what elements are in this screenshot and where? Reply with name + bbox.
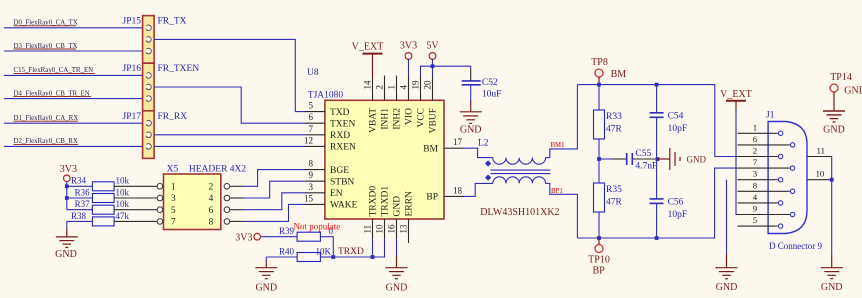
J1 pin 1 [738, 122, 783, 135]
svg-text:1: 1 [171, 183, 176, 193]
connector J1 D Connector 9 body [766, 111, 822, 252]
svg-text:BM: BM [423, 144, 438, 154]
svg-text:3V3: 3V3 [400, 41, 417, 52]
svg-text:5V: 5V [426, 41, 439, 52]
pin 9 STBN [305, 170, 354, 187]
svg-text:C55: C55 [635, 149, 651, 159]
J1 pin 5 [738, 215, 783, 228]
power 3V3 (left) [60, 164, 77, 182]
ground GND (U8 pin16) [386, 256, 408, 294]
svg-text:C54: C54 [668, 112, 684, 122]
svg-text:GND: GND [55, 249, 77, 260]
svg-text:4: 4 [399, 85, 409, 90]
junction [371, 255, 375, 259]
junction [597, 157, 601, 161]
pin 11 TRXD0 [363, 186, 379, 239]
svg-text:15: 15 [304, 193, 314, 203]
pin 20 VBUF [423, 76, 439, 134]
svg-text:INH2: INH2 [393, 108, 403, 130]
wire D2 to JP17.3 [4, 145, 143, 147]
svg-text:1: 1 [387, 85, 397, 90]
wire FR_RX JP17.2 to U8.RXD [154, 134, 305, 136]
resistor R38 [67, 211, 130, 226]
svg-text:10k: 10k [116, 187, 130, 197]
svg-text:GND: GND [823, 125, 845, 136]
header X5 [114, 165, 246, 230]
svg-text:8: 8 [309, 159, 314, 169]
svg-text:5: 5 [753, 215, 758, 225]
svg-text:R37: R37 [75, 199, 91, 209]
junction [597, 83, 601, 87]
svg-text:10k: 10k [116, 176, 130, 186]
wire FR_TXEN JP16.2 to U8.TXEN [154, 87, 305, 123]
resistor R36 [67, 187, 130, 202]
wire shield to ground [831, 180, 833, 256]
pin 16 GND [387, 196, 403, 239]
ground GND (R40) [255, 260, 277, 294]
wire BP pin18 to choke [464, 183, 493, 196]
svg-text:20: 20 [423, 80, 433, 90]
wire R38 to ground [66, 221, 68, 230]
net D0_FlexRay0_CA_TX [14, 20, 78, 27]
testpoint TP8 [591, 57, 608, 85]
svg-text:JP17: JP17 [123, 112, 142, 122]
wire 3V3 vertical [66, 182, 68, 210]
pin 12 RXEN [304, 135, 356, 152]
power 5V [426, 41, 439, 60]
svg-text:14: 14 [363, 80, 373, 90]
svg-text:JP15: JP15 [123, 17, 142, 27]
wire V_EXT to J1 pin9 [736, 110, 738, 215]
ground GND (rotated, C55) [658, 148, 707, 170]
svg-text:V_EXT: V_EXT [720, 89, 752, 100]
svg-text:6: 6 [209, 206, 214, 216]
svg-text:BM: BM [611, 69, 627, 80]
J1 pin 9 [738, 204, 795, 217]
svg-text:11: 11 [817, 146, 825, 156]
J1 pin 6 [738, 134, 795, 147]
svg-text:5: 5 [171, 206, 176, 216]
svg-text:RXD: RXD [330, 131, 350, 141]
svg-text:10: 10 [816, 169, 825, 179]
wire TRXD0 drop [372, 239, 374, 257]
svg-text:10k: 10k [116, 199, 130, 209]
J1 pin 10 [807, 169, 832, 180]
capacitor C55 [599, 149, 658, 171]
capacitor C52 [462, 78, 502, 100]
testpoint TP10 [588, 238, 610, 266]
power 3V3 (R39) [235, 233, 260, 244]
svg-text:TP8: TP8 [591, 57, 608, 68]
wire J1 pin3 to ground [726, 180, 728, 256]
svg-text:19: 19 [411, 80, 421, 90]
junction [431, 64, 435, 68]
svg-text:7: 7 [309, 124, 314, 134]
svg-text:3V3: 3V3 [60, 164, 77, 175]
svg-text:BP: BP [593, 266, 606, 277]
op-amp U8 TJA1080 body [307, 68, 444, 219]
jumper JP15 [123, 16, 155, 64]
svg-text:R39: R39 [279, 226, 295, 236]
svg-text:TJA1080: TJA1080 [308, 91, 344, 101]
svg-text:BM1: BM1 [551, 142, 565, 149]
svg-text:6: 6 [309, 112, 314, 122]
svg-text:VIO: VIO [405, 108, 415, 125]
wire JP17.3 to U8.RXEN [154, 145, 305, 147]
wire D3 to JP15.3 [4, 50, 143, 52]
svg-text:R38: R38 [71, 211, 87, 221]
svg-text:3: 3 [309, 182, 314, 192]
J1 pin 8 [738, 180, 795, 193]
junction [656, 157, 660, 161]
resistor R35 [594, 183, 623, 212]
jumper JP17 [123, 111, 155, 159]
svg-text:3V3: 3V3 [235, 233, 252, 244]
svg-text:3: 3 [171, 194, 176, 204]
svg-text:11: 11 [363, 225, 373, 234]
svg-text:10pF: 10pF [668, 124, 688, 134]
wire BM pin17 to choke [464, 148, 493, 157]
J1 pin 7 [738, 157, 795, 170]
svg-text:GND: GND [393, 196, 403, 217]
pin 13 ERRN [399, 191, 415, 243]
svg-text:4.7nF: 4.7nF [635, 162, 657, 172]
ground GND (J1 shield) [821, 255, 843, 293]
wire X5.8 to U8.WAKE [244, 204, 306, 221]
pin 19 VCC [411, 76, 427, 128]
svg-text:10: 10 [375, 224, 385, 234]
junction [830, 178, 834, 182]
J1 pin 11 [807, 146, 832, 157]
svg-text:JP16: JP16 [123, 64, 142, 74]
svg-text:FR_TX: FR_TX [158, 17, 187, 27]
wire C52 to ground [470, 85, 472, 102]
wire FR_TX JP15.2 to U8.TXD [154, 39, 305, 111]
power V_EXT (right) [720, 89, 752, 110]
wire 5V to VBUF [432, 59, 434, 76]
svg-text:R40: R40 [279, 246, 295, 256]
svg-text:EN: EN [330, 189, 343, 199]
junction [331, 255, 335, 259]
wire X5.6 to U8.EN [244, 193, 306, 210]
pin 10 TRXD1 [375, 186, 391, 239]
pin 17 BM [423, 137, 464, 154]
wire BM rail [577, 85, 737, 157]
power V_EXT (above U8) [352, 42, 384, 77]
svg-text:TRXD0: TRXD0 [369, 186, 379, 217]
junction [655, 83, 659, 87]
wire pin11 to pin10 [831, 157, 833, 180]
svg-text:GND: GND [844, 86, 862, 97]
ground GND (J1 pin3) [716, 255, 738, 293]
svg-text:18: 18 [453, 185, 463, 195]
ground GND (C52) [460, 101, 482, 136]
wire VCC riser to C52 [421, 66, 471, 76]
capacitor C54 [650, 85, 688, 159]
svg-text:WAKE: WAKE [330, 201, 358, 211]
pin 5 TXD [305, 101, 350, 118]
svg-text:R36: R36 [75, 187, 91, 197]
wire C15 to JP16.1 [4, 74, 143, 76]
wire TRXD1 drop [373, 239, 385, 257]
svg-text:8: 8 [209, 218, 214, 228]
wire R40 to TRXD node [320, 256, 333, 258]
pin 7 RXD [305, 124, 350, 141]
svg-text:GND: GND [821, 282, 843, 293]
capacitor C56 [650, 159, 688, 238]
svg-text:2: 2 [209, 183, 214, 193]
svg-text:0: 0 [329, 226, 334, 236]
svg-text:16: 16 [387, 224, 397, 234]
svg-text:GND: GND [386, 283, 408, 294]
svg-text:GND: GND [716, 282, 738, 293]
wire R33 to mid node [598, 139, 600, 183]
svg-text:8: 8 [753, 180, 758, 190]
svg-text:C56: C56 [668, 198, 684, 208]
svg-text:3: 3 [753, 169, 758, 179]
svg-text:VCC: VCC [417, 108, 427, 128]
svg-text:U8: U8 [307, 68, 319, 78]
wire BP rail [577, 168, 737, 238]
svg-text:2: 2 [753, 146, 757, 156]
svg-text:STBN: STBN [330, 177, 354, 187]
svg-text:J1: J1 [766, 111, 775, 121]
J1 pin 2 [738, 146, 783, 159]
svg-text:VBAT: VBAT [369, 108, 379, 133]
svg-text:V_EXT: V_EXT [352, 42, 384, 53]
pin 3 EN [305, 182, 343, 199]
wire choke to BP rail [546, 183, 578, 238]
net D3_FlexRay0_CB_TX [14, 43, 78, 50]
J1 pin 4 [738, 192, 783, 205]
svg-text:ERRN: ERRN [405, 191, 415, 216]
svg-text:10uF: 10uF [482, 90, 502, 100]
pin 18 BP [426, 185, 464, 202]
net D4_FlexRay0_CB_TR_EN [14, 90, 92, 97]
svg-text:10pF: 10pF [668, 210, 688, 220]
pin 4 VIO [399, 76, 415, 125]
resistor R37 [67, 199, 130, 214]
svg-text:47R: 47R [606, 198, 623, 208]
wire 3V3 to VIO [408, 59, 410, 76]
power 3V3 (above U8) [400, 41, 417, 60]
svg-text:7: 7 [753, 157, 758, 167]
svg-text:R35: R35 [606, 185, 622, 195]
svg-text:R33: R33 [606, 112, 622, 122]
wire TRXD to TRXD0 [333, 256, 372, 258]
svg-text:TXEN: TXEN [330, 119, 355, 129]
J1 pin 3 [738, 169, 783, 182]
wire D4 to JP16.3 [4, 98, 143, 100]
svg-text:47R: 47R [606, 125, 623, 135]
net D2_FlexRay0_CB_RX [14, 138, 79, 145]
wire R40 to ground [265, 257, 267, 261]
svg-text:12: 12 [304, 135, 313, 145]
svg-text:47k: 47k [116, 211, 130, 221]
svg-text:GND: GND [460, 125, 482, 136]
svg-text:INH1: INH1 [381, 108, 391, 130]
net D1_FlexRay0_CA_RX [14, 115, 79, 122]
svg-text:TRXD1: TRXD1 [381, 186, 391, 217]
wire X5.2 to U8.BGE [244, 170, 306, 187]
resistor R33 [594, 85, 623, 139]
junction [655, 236, 659, 240]
pin 1 INH2 [387, 76, 403, 130]
resistor R34 [67, 176, 130, 191]
wire GND pin drop [396, 239, 398, 257]
svg-text:R34: R34 [71, 176, 87, 186]
svg-text:9: 9 [753, 204, 758, 214]
svg-text:TP10: TP10 [588, 255, 610, 266]
svg-text:13: 13 [399, 224, 409, 234]
svg-text:GND: GND [687, 155, 707, 165]
junction [65, 196, 69, 200]
svg-text:VBUF: VBUF [429, 108, 439, 133]
svg-text:X5: X5 [167, 165, 179, 175]
svg-text:L2: L2 [478, 139, 489, 149]
svg-text:TP14: TP14 [830, 72, 852, 83]
wire TP14 to ground [833, 92, 835, 111]
svg-text:C52: C52 [482, 78, 498, 88]
svg-text:2: 2 [375, 85, 385, 90]
inductor L2 (common-mode choke DLW43SH101XK2) [478, 139, 560, 219]
svg-text:17: 17 [453, 137, 463, 147]
jumper JP16 [123, 63, 155, 111]
junction [65, 184, 69, 188]
wire R35 to BP rail [598, 212, 600, 238]
testpoint TP14 [830, 72, 852, 92]
wire R39 down to TRXD [320, 237, 333, 257]
svg-text:10K: 10K [316, 246, 332, 256]
resistor R40 [266, 246, 331, 261]
svg-text:7: 7 [171, 218, 176, 228]
svg-text:D Connector 9: D Connector 9 [769, 241, 822, 251]
svg-text:BGE: BGE [330, 166, 349, 176]
pin 6 TXEN [305, 112, 355, 129]
net C15_FlexRay0_CA_TR_EN [14, 67, 96, 74]
svg-text:GND: GND [255, 283, 277, 294]
svg-text:HEADER 4X2: HEADER 4X2 [189, 165, 247, 175]
svg-text:FR_RX: FR_RX [158, 112, 188, 122]
ground GND (TP14) [823, 111, 845, 136]
wire D0 to JP15.1 [4, 27, 143, 29]
pin 14 VBAT [363, 76, 379, 133]
svg-text:6: 6 [753, 134, 758, 144]
svg-text:5: 5 [309, 101, 314, 111]
ground GND (below R38) [55, 229, 78, 260]
pin 2 INH1 [375, 76, 391, 130]
svg-text:RXEN: RXEN [330, 143, 356, 153]
wire D1 to JP17.1 [4, 122, 143, 124]
svg-text:9: 9 [309, 170, 314, 180]
pin 8 BGE [305, 159, 349, 176]
svg-text:4: 4 [753, 192, 758, 202]
svg-text:BP: BP [426, 193, 438, 203]
wire choke to BM rail [546, 85, 578, 158]
svg-text:FR_TXEN: FR_TXEN [158, 64, 200, 74]
junction [597, 236, 601, 240]
pin 15 WAKE [304, 193, 358, 210]
svg-text:TRXD: TRXD [338, 247, 364, 257]
svg-text:DLW43SH101XK2: DLW43SH101XK2 [480, 207, 559, 218]
svg-text:4: 4 [209, 194, 214, 204]
resistor R39 [261, 222, 341, 242]
wire X5.4 to U8.STBN [244, 181, 306, 198]
svg-text:Not populate: Not populate [294, 222, 341, 232]
svg-text:1: 1 [753, 122, 757, 132]
svg-text:TXD: TXD [330, 108, 350, 118]
